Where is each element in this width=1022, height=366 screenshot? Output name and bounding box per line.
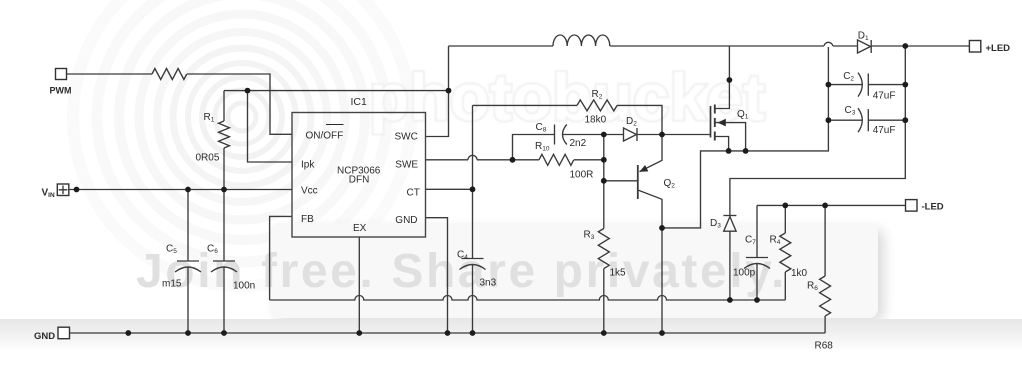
svg-text:IC1: IC1 (351, 96, 368, 108)
svg-text:GND: GND (34, 331, 55, 342)
svg-text:Vcc: Vcc (301, 186, 318, 197)
svg-text:47uF: 47uF (873, 90, 896, 101)
svg-text:100R: 100R (570, 170, 594, 181)
svg-text:m15: m15 (162, 279, 182, 290)
svg-text:ON/OFF: ON/OFF (306, 130, 344, 141)
svg-text:PWM: PWM (50, 86, 72, 96)
svg-text:1k5: 1k5 (610, 268, 627, 279)
svg-text:-LED: -LED (922, 202, 944, 213)
svg-text:Ipk: Ipk (301, 160, 315, 171)
svg-text:GND: GND (395, 215, 417, 226)
svg-text:0R05: 0R05 (196, 153, 220, 164)
svg-text:2n2: 2n2 (570, 138, 587, 149)
svg-text:SWE: SWE (395, 160, 418, 171)
svg-text:100n: 100n (233, 281, 255, 292)
svg-text:R68: R68 (815, 341, 834, 352)
svg-text:photobucket: photobucket (369, 60, 765, 134)
svg-text:47uF: 47uF (873, 125, 896, 136)
svg-text:3n3: 3n3 (480, 278, 497, 289)
svg-text:CT: CT (407, 187, 420, 198)
svg-text:18k0: 18k0 (585, 115, 607, 126)
svg-text:EX: EX (353, 223, 367, 234)
svg-text:SWC: SWC (395, 132, 418, 143)
svg-text:+LED: +LED (986, 43, 1011, 54)
svg-text:DFN: DFN (349, 175, 370, 186)
svg-text:100p: 100p (733, 268, 756, 279)
svg-text:FB: FB (301, 214, 314, 225)
svg-text:1k0: 1k0 (791, 268, 808, 279)
